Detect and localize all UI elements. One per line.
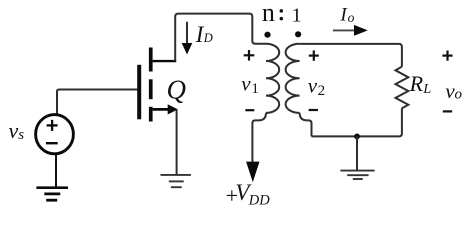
voltage source vs circle [36, 115, 74, 154]
svg-text:D: D [203, 31, 213, 45]
ground under transformer secondary [340, 171, 374, 179]
wire RL bottom [312, 108, 402, 136]
secondary bottom wire [300, 113, 312, 136]
output minus [443, 110, 452, 112]
primary bottom wire to VDD [252, 113, 266, 162]
secondary plus [309, 50, 319, 60]
plus inside vs [47, 120, 58, 131]
svg-text:v: v [241, 72, 251, 96]
secondary minus [309, 109, 318, 111]
transformer primary winding [266, 44, 279, 113]
svg-text:s: s [18, 127, 24, 143]
primary minus [245, 109, 254, 111]
svg-text:1: 1 [292, 5, 302, 27]
junction node dot [354, 134, 360, 140]
minus inside vs [46, 142, 58, 144]
svg-text:Q: Q [167, 75, 187, 105]
transistor Q channel dashes [149, 48, 153, 122]
resistor RL zigzag [396, 67, 409, 109]
polarity dot primary [264, 32, 270, 38]
wire drain up and right to transformer [175, 14, 266, 61]
ground under vs [36, 188, 68, 201]
svg-text:v: v [308, 73, 318, 97]
output plus [442, 51, 452, 61]
ground under source [161, 175, 191, 187]
svg-text:2: 2 [318, 83, 326, 99]
current ID arrow [186, 22, 188, 45]
drain tap [153, 60, 177, 62]
svg-text:1: 1 [251, 81, 259, 97]
svg-text:n: n [262, 0, 275, 27]
svg-text:o: o [455, 87, 463, 103]
svg-text:L: L [422, 82, 431, 97]
VDD arrowhead [246, 162, 259, 183]
wire vs to ground [55, 155, 57, 188]
transformer secondary winding [286, 44, 300, 113]
svg-text:v: v [9, 118, 19, 143]
polarity dot secondary [295, 31, 301, 37]
svg-text:DD: DD [248, 193, 270, 209]
transistor Q gate bar [137, 65, 141, 120]
primary plus [244, 50, 255, 61]
wire junction to ground [356, 136, 358, 170]
svg-text:R: R [409, 71, 424, 96]
current Io arrow [333, 29, 356, 31]
wire source down to ground [176, 110, 178, 175]
wire gate from vs to MOSFET [57, 90, 138, 115]
svg-text:o: o [348, 10, 355, 25]
source tap with arrow [153, 108, 170, 111]
wire secondary top to RL [300, 44, 402, 67]
